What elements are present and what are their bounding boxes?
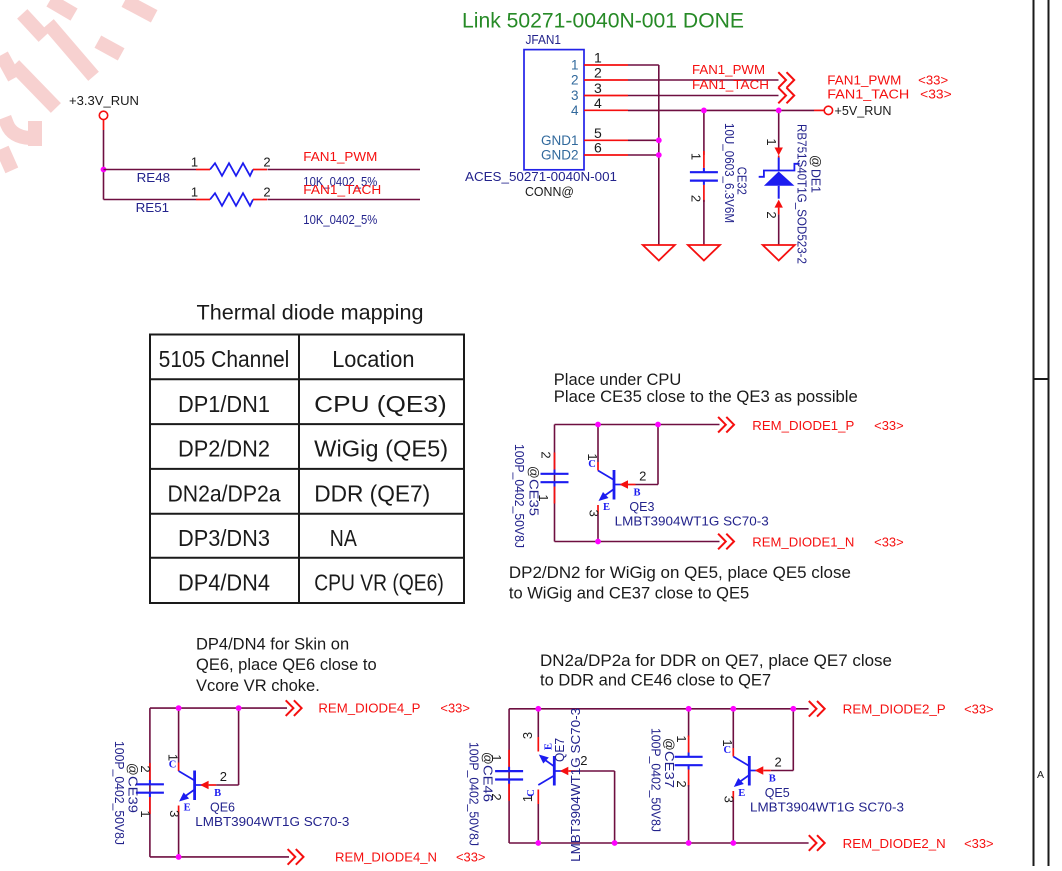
junction QE5 base rail [790,706,796,712]
capacitor CE39 [136,783,164,785]
wire QE6 base feed [216,784,239,786]
svg-text:A: A [1037,769,1044,781]
transistor QE5 [732,748,734,757]
offpage REM_DIODE1_P [718,417,726,433]
svg-text:@: @ [808,155,822,168]
node junction RE48 tap [101,167,107,173]
wire QE7 base feed [576,770,615,772]
svg-text:DP1/DN1: DP1/DN1 [178,391,270,417]
svg-text:DDR (QE7): DDR (QE7) [314,481,430,507]
wire pin4 +5V rail [628,109,814,111]
svg-text:@: @ [480,752,494,765]
wire DIODE2 left vertical [508,709,510,843]
svg-text:2: 2 [263,185,270,200]
svg-text:FAN1_PWM: FAN1_PWM [692,63,765,77]
svg-text:@: @ [126,763,140,776]
svg-text:E: E [184,803,191,814]
svg-text:+3.3V_RUN: +3.3V_RUN [69,94,139,108]
wire QE3 bottom rail [555,541,720,543]
transistor QE7 [539,755,549,764]
svg-text:<33>: <33> [440,702,470,716]
svg-text:<33>: <33> [456,851,486,865]
junction CE32 rail [701,108,707,114]
wire QE7 collector bottom [537,804,539,843]
svg-text:QE7: QE7 [553,738,567,762]
svg-text:B: B [214,788,221,799]
svg-text:1: 1 [191,185,198,200]
table grid [150,335,464,604]
junction QE3 base rail [655,422,661,428]
wire CE37 top [688,709,690,737]
wire QE3 top rail [555,424,720,426]
svg-text:CE39: CE39 [126,776,140,813]
diode DE1 [778,158,780,171]
svg-text:REM_DIODE2_N: REM_DIODE2_N [843,837,946,851]
transistor QE6 [178,763,180,772]
svg-text:DE1: DE1 [808,169,822,193]
svg-text:100P_0402_50V8J: 100P_0402_50V8J [466,742,480,846]
svg-text:RE48: RE48 [137,171,171,185]
svg-text:B: B [633,488,640,499]
svg-text:1: 1 [594,50,602,66]
svg-text:<33>: <33> [964,837,994,851]
wire QE3 emitter [597,514,599,542]
offpage REM_DIODE4_N [288,849,296,865]
svg-text:Location: Location [332,346,414,372]
svg-text:RB751S40T1G_SOD523-2: RB751S40T1G_SOD523-2 [794,124,808,264]
offpage REM_DIODE1_N [718,534,726,550]
svg-text:NA: NA [330,525,358,551]
svg-text:<33>: <33> [964,703,994,717]
svg-text:DN2a/DP2a for DDR on QE7, plac: DN2a/DP2a for DDR on QE7, place QE7 clos… [540,652,892,670]
wire QE6 emitter [178,815,180,857]
capacitor CE46 [495,770,523,772]
svg-text:FAN1_PWM: FAN1_PWM [827,74,901,88]
svg-text:REM_DIODE2_P: REM_DIODE2_P [843,703,946,717]
svg-text:1: 1 [764,138,779,145]
svg-text:FAN1_PWM: FAN1_PWM [303,150,377,164]
capacitor CE32 [690,171,718,173]
svg-text:to WiGig and CE37 close to QE5: to WiGig and CE37 close to QE5 [509,585,749,603]
wire QE6 left vertical [149,708,151,857]
svg-text:DP2/DN2: DP2/DN2 [178,436,270,462]
svg-text:CE46: CE46 [480,765,494,802]
svg-text:3: 3 [520,732,535,739]
ground JFAN1 [643,245,675,261]
svg-text:2: 2 [538,451,553,458]
connector pin stubs [584,64,628,66]
svg-text:Place CE35 close to the QE3 as: Place CE35 close to the QE3 as possible [554,388,858,406]
svg-text:to DDR and CE46 close to QE7: to DDR and CE46 close to QE7 [540,672,771,690]
svg-text:Thermal diode mapping: Thermal diode mapping [197,302,424,325]
svg-text:CE37: CE37 [662,751,676,788]
svg-text:DP2/DN2 for WiGig on QE5, plac: DP2/DN2 for WiGig on QE5, place QE5 clos… [509,564,851,582]
wire pin2 FAN1_PWM [628,79,779,81]
svg-text:2: 2 [571,73,579,88]
wire GND2 stub join [628,154,659,156]
svg-text:3: 3 [594,80,602,96]
svg-text:3: 3 [586,510,601,517]
wire QE5 emitter [732,800,734,843]
svg-text:<33>: <33> [874,536,904,550]
wire RE51 row [104,199,197,201]
svg-text:FAN1_TACH: FAN1_TACH [303,183,381,197]
junction QE7 base rail [612,840,618,846]
svg-text:LMBT3904WT1G SC70-3: LMBT3904WT1G SC70-3 [569,708,583,862]
svg-text:LMBT3904WT1G SC70-3: LMBT3904WT1G SC70-3 [750,801,904,815]
svg-text:GND1: GND1 [541,133,579,148]
wire QE3 collector [597,425,599,463]
svg-text:ACES_50271-0040N-001: ACES_50271-0040N-001 [465,170,617,184]
svg-text:3: 3 [722,796,737,803]
junction QE3 emitter rail [595,539,601,545]
svg-text:4: 4 [594,95,602,111]
wire +3.3V vertical [103,130,105,200]
connector JFAN1 body [524,50,584,170]
svg-text:REM_DIODE4_P: REM_DIODE4_P [318,702,420,716]
junction QE5 emitter rail [730,840,736,846]
offpage REM_DIODE2_N [809,835,817,851]
offpage FAN1_PWM [778,72,786,88]
svg-text:DP4/DN4 for Skin on: DP4/DN4 for Skin on [196,635,349,653]
wire QE3 base feed [636,484,659,486]
sheet border [1033,0,1035,866]
resistor RE51 [210,193,253,206]
wire DE1 top [778,110,780,148]
svg-text:100P_0402_50V8J: 100P_0402_50V8J [649,728,663,832]
svg-text:C: C [588,459,596,470]
svg-text:3: 3 [167,810,182,817]
wire QE6 bottom rail [150,856,289,858]
pin1 arrow DE1 [775,148,783,156]
svg-text:Vcore VR choke.: Vcore VR choke. [196,677,320,695]
junction QE5 collector rail [730,706,736,712]
svg-text:GND2: GND2 [541,148,579,163]
svg-text:QE6, place QE6 close to: QE6, place QE6 close to [196,656,377,674]
svg-text:5: 5 [594,125,602,141]
svg-text:100P_0402_50V8J: 100P_0402_50V8J [512,444,526,548]
svg-text:QE6: QE6 [210,801,235,815]
svg-text:<33>: <33> [874,419,904,433]
wire CE32 bottom [703,200,705,245]
junction GND1 [656,137,662,143]
svg-text:DP4/DN4: DP4/DN4 [178,570,270,596]
svg-text:REM_DIODE1_N: REM_DIODE1_N [752,536,854,550]
svg-text:CPU (QE3): CPU (QE3) [314,391,447,417]
power +5V_RUN [824,106,832,114]
pin2 arrow DE1 [775,200,783,208]
junction QE3 collector rail [595,422,601,428]
svg-text:2: 2 [688,195,703,202]
watermark [5,4,148,164]
wire pin1 to gnd net [628,64,659,66]
svg-text:1: 1 [191,155,198,170]
wire GND1 stub join [628,139,659,141]
wire DE1 bottom [778,214,780,245]
svg-text:DN2a/DP2a: DN2a/DP2a [168,481,281,507]
svg-text:@: @ [662,738,676,751]
wire QE7 emitter top [537,709,539,737]
junction QE7 emitter rail [535,706,541,712]
svg-text:4: 4 [571,103,579,118]
svg-text:LMBT3904WT1G SC70-3: LMBT3904WT1G SC70-3 [195,815,349,829]
svg-text:<33>: <33> [920,88,952,102]
junction DE1 rail [776,108,782,114]
svg-text:REM_DIODE1_P: REM_DIODE1_P [752,419,854,433]
svg-text:B: B [769,774,776,785]
svg-text:QE3: QE3 [629,500,654,514]
wire DIODE2 bottom rail [509,842,808,844]
offpage FAN1_TACH [778,88,786,104]
svg-text:LMBT3904WT1G SC70-3: LMBT3904WT1G SC70-3 [615,515,769,529]
svg-text:CPU VR (QE6): CPU VR (QE6) [314,570,444,596]
svg-text:2: 2 [774,755,781,770]
svg-text:2: 2 [263,155,270,170]
svg-text:10U_0603_6.3V6M: 10U_0603_6.3V6M [722,123,736,223]
ground CE32 [688,245,720,261]
junction QE6 emitter rail [176,854,182,860]
svg-text:JFAN1: JFAN1 [526,33,562,47]
svg-text:REM_DIODE4_N: REM_DIODE4_N [335,851,437,865]
capacitor CE37 [675,756,703,758]
svg-text:2: 2 [639,469,646,484]
svg-text:FAN1_TACH: FAN1_TACH [827,88,909,102]
svg-text:QE5: QE5 [765,786,790,800]
svg-text:E: E [603,502,610,513]
svg-text:<33>: <33> [918,74,948,88]
offpage REM_DIODE4_P [286,700,294,716]
svg-text:RE51: RE51 [136,201,170,215]
svg-text:CE35: CE35 [526,479,540,516]
junction CE37 rail bottom [686,840,692,846]
ground DE1 [763,245,795,261]
svg-text:+5V_RUN: +5V_RUN [835,104,892,118]
svg-text:5105 Channel: 5105 Channel [159,346,290,372]
svg-text:Place under CPU: Place under CPU [554,371,681,389]
svg-text:FAN1_TACH: FAN1_TACH [692,78,769,92]
svg-text:C: C [724,745,732,756]
svg-text:@: @ [526,466,540,479]
svg-text:6: 6 [594,140,602,156]
svg-text:2: 2 [764,211,779,218]
resistor RE48 [210,163,253,176]
transistor QE3 [597,462,599,471]
svg-text:2: 2 [220,769,227,784]
wire pin3 FAN1_TACH [628,95,779,97]
junction QE6 base rail [236,705,242,711]
junction QE6 collector rail [176,705,182,711]
svg-text:1: 1 [520,795,535,802]
svg-text:C: C [169,760,177,771]
wire QE3 left vertical [554,425,556,542]
wire QE6 collector [178,708,180,762]
svg-text:Link 50271-0040N-001 DONE: Link 50271-0040N-001 DONE [462,10,744,33]
wire CE37 bottom [688,785,690,843]
junction CE37 rail top [686,706,692,712]
svg-text:DP3/DN3: DP3/DN3 [178,525,270,551]
svg-text:2: 2 [594,65,602,81]
svg-text:E: E [738,788,745,799]
svg-text:100P_0402_50V8J: 100P_0402_50V8J [112,741,126,845]
svg-text:CE32: CE32 [735,167,749,195]
capacitor CE35 [541,473,569,475]
junction QE7 collector rail [535,840,541,846]
wire QE5 base feed [771,770,794,772]
wire DIODE2 top rail [509,708,808,710]
svg-text:CONN@: CONN@ [525,185,574,199]
svg-text:1: 1 [571,58,579,73]
offpage REM_DIODE2_P [809,701,817,717]
wire CE32 top [703,110,705,154]
svg-text:3: 3 [571,88,579,103]
svg-text:10K_0402_5%: 10K_0402_5% [303,213,377,227]
svg-text:WiGig (QE5): WiGig (QE5) [314,436,448,462]
wire RE48 row [104,169,197,171]
svg-text:1: 1 [688,153,703,160]
junction GND2 [656,152,662,158]
wire QE6 top rail [150,707,287,709]
wire QE5 collector [732,709,734,748]
